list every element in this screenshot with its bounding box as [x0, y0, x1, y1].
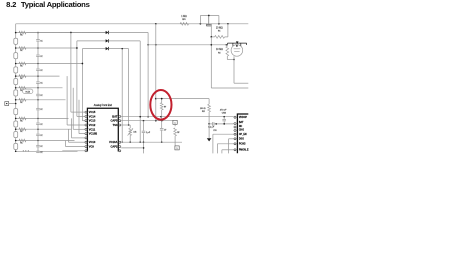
wire - VC13 sense vertical x82	[81, 49, 83, 121]
svg-text:VC11: VC11	[89, 127, 96, 131]
node - filter cap column junction row 6	[37, 99, 39, 101]
pin U2-4 stub	[234, 129, 237, 131]
wire - VC10A rail	[121, 141, 182, 143]
pin VC11 stub	[85, 128, 88, 130]
pin U2-3 stub	[234, 126, 237, 128]
node - REGOUT bottom junction	[122, 142, 123, 143]
capacitor CC7	[37, 118, 39, 122]
node - BAT rail junction x224	[223, 116, 225, 118]
svg-text:CF: CF	[164, 130, 166, 132]
svg-text:RC: RC	[20, 120, 22, 122]
svg-text:1: 1	[177, 148, 178, 150]
node - RX1 bottom junction	[210, 36, 212, 38]
pin U2-8 stub	[234, 149, 237, 151]
wire - cell tap row 9	[16, 140, 75, 142]
resistor RC6	[19, 98, 26, 101]
svg-text:CC: CC	[40, 95, 42, 97]
jumper marker oval	[23, 89, 33, 94]
node - stack junction row 2	[15, 47, 17, 49]
pin VC12 stub	[85, 124, 88, 126]
node - rail junction at x200	[200, 23, 202, 25]
svg-text:VC10: VC10	[89, 140, 96, 144]
node - row2 T junction	[76, 47, 78, 49]
node - x156 junction y99	[155, 98, 157, 100]
capacitor CC9	[37, 141, 39, 146]
resistor RF1 highlighted	[161, 99, 163, 103]
svg-text:NC: NC	[239, 126, 243, 128]
node - D2 vertical bottom junction	[139, 141, 141, 143]
svg-text:0.1 µF: 0.1 µF	[208, 127, 215, 129]
capacitor CSS 0.1uF series	[209, 123, 212, 125]
node - CF bottom junction	[161, 141, 163, 143]
capacitor CC5	[37, 88, 39, 94]
svg-text:VC15: VC15	[89, 110, 96, 114]
node - CAP5 junction x155	[155, 120, 157, 122]
resistor RC2	[19, 47, 26, 50]
svg-text:VC5X: VC5X	[25, 92, 30, 94]
wire - bundle route row8 to AFE pin	[68, 129, 70, 142]
svg-text:CAP2: CAP2	[110, 145, 117, 149]
wire - highlighted net horizontal	[156, 98, 209, 100]
op-amp U2 driver box edge	[237, 114, 248, 153]
resistor RC7	[19, 117, 26, 120]
node - stack junction row 6	[15, 99, 17, 101]
wire - diode D3 output	[109, 48, 129, 50]
svg-text:100 Ω: 100 Ω	[200, 108, 206, 110]
node - stack junction row 9	[15, 140, 17, 142]
wire - cell tap row 1	[16, 32, 106, 34]
svg-text:CP_EN: CP_EN	[239, 134, 247, 136]
node - stack junction row 1	[15, 32, 17, 34]
resistor RC1	[19, 31, 26, 34]
svg-text:CC: CC	[40, 109, 42, 111]
pin VC13 stub	[85, 120, 88, 122]
node - gate loop junction	[208, 15, 210, 17]
svg-text:Typical Applications: Typical Applications	[21, 0, 90, 9]
wire - CAP5 rail	[121, 120, 173, 122]
wire - bundle route row5 to AFE pin	[72, 88, 74, 130]
svg-text:RC: RC	[20, 131, 22, 133]
svg-text:RC: RC	[20, 90, 22, 92]
svg-text:VC10B: VC10B	[89, 132, 97, 136]
node - BAT rail junction x161	[160, 116, 162, 118]
capacitor CC8	[37, 129, 39, 134]
node - filter cap column junction row 4	[37, 75, 39, 77]
battery cell BT9	[14, 143, 18, 149]
node - row3 T junction	[82, 63, 84, 65]
svg-text:VC9: VC9	[89, 145, 95, 149]
transistor Q2 gate marks	[234, 48, 241, 50]
battery cell BT7	[14, 121, 18, 127]
transistor Q2 drain bar	[228, 42, 247, 44]
resistor RW 100 ohm	[208, 99, 210, 104]
wire - cell tap row 4	[16, 75, 60, 77]
wire - BAT rail	[121, 116, 233, 118]
wire - diode D2 output	[109, 40, 141, 42]
wire - CP_EN riser	[212, 134, 214, 153]
node - rail junction at x156	[155, 23, 157, 25]
svg-text:CC: CC	[40, 124, 42, 126]
svg-text:Analog Front End: Analog Front End	[94, 104, 113, 107]
svg-text:PCHG: PCHG	[239, 144, 246, 146]
wire - bundle route row9 to AFE pin	[65, 141, 67, 147]
node - filter cap column junction row 9	[37, 140, 39, 142]
transistor Q2 body circle	[231, 45, 243, 57]
pin VC15 stub	[85, 111, 88, 113]
node - stack junction row 5	[15, 87, 17, 89]
resistor RC3	[19, 62, 26, 65]
node - CVDD bottom junction	[223, 123, 225, 125]
wire - D1 output vertical x148	[147, 33, 149, 117]
svg-text:10 MΩ: 10 MΩ	[216, 49, 223, 51]
pin CAP2 right stub	[118, 146, 121, 148]
wire - D3 output vertical x129	[128, 49, 130, 125]
wire - DSG drive horizontal to edge	[234, 82, 248, 84]
resistor RPMON	[174, 124, 176, 126]
op-amp U1 Analog Front End box	[87, 108, 118, 151]
node - stack junction row 7	[15, 118, 17, 120]
svg-text:8.2: 8.2	[6, 0, 16, 9]
svg-text:1: 1	[175, 123, 176, 125]
battery cell BT1	[14, 38, 18, 44]
node - stack junction row 8	[15, 128, 17, 130]
node - stack junction row 10	[15, 151, 17, 153]
wire - cell tap row 7	[16, 117, 69, 119]
svg-text:CC: CC	[40, 70, 42, 72]
pin VC10B stub	[85, 133, 88, 135]
wire - PMON riser	[221, 150, 223, 154]
resistor RC5	[19, 86, 26, 89]
wire - RX2 bottom to Q2 source	[226, 56, 228, 59]
node - filter cap column junction row 8	[37, 128, 39, 130]
wire - top BAT+ rail	[16, 23, 249, 25]
wire - cell tap row 5	[16, 87, 63, 89]
node - Q2 source junction	[233, 59, 235, 61]
node - D1 vertical bottom junction	[147, 116, 149, 118]
ellipsis continuation dots	[23, 150, 24, 151]
capacitor CC10	[37, 150, 39, 152]
capacitor CTS 1uF	[143, 121, 145, 131]
svg-text:PMON_E: PMON_E	[239, 150, 249, 152]
svg-text:VC12: VC12	[89, 123, 96, 127]
node - PACK- stack junction	[15, 103, 17, 105]
resistor RPU 1 Mohm	[180, 22, 188, 25]
node - Q2 internal node	[236, 45, 238, 47]
svg-text:TS3: TS3	[113, 123, 118, 127]
svg-text:CSS: CSS	[213, 130, 216, 132]
capacitor CC4	[37, 76, 39, 82]
wire - RW ground vertical	[208, 124, 210, 138]
pin CAP5 right stub	[118, 120, 121, 122]
node - CAP5 junction x161	[161, 120, 163, 122]
resistor RC4	[19, 75, 26, 78]
capacitor CF	[161, 121, 163, 128]
wire - battery stack vertical rail	[15, 24, 17, 152]
svg-text:RC: RC	[20, 143, 22, 145]
wire - VC14 sense vertical x77	[76, 41, 78, 117]
capacitor CC3	[37, 64, 39, 69]
diode D1	[106, 31, 109, 34]
wire - diode D1 output	[109, 32, 149, 34]
svg-text:CC: CC	[40, 152, 42, 154]
pin U2-6 stub	[234, 138, 237, 140]
wire - diode row 1	[26, 32, 105, 34]
battery cell BT8	[14, 132, 18, 138]
node - REGOUT top junction	[121, 48, 123, 50]
svg-text:VDDCP: VDDCP	[239, 117, 248, 119]
wire - diode row 3 wire	[82, 48, 105, 50]
svg-text:RF: RF	[164, 106, 166, 108]
resistor RX1 10 Mohm loop	[210, 24, 212, 37]
wire - PCHG riser	[216, 144, 218, 154]
wire - TS3 net	[121, 124, 130, 126]
svg-text:RX: RX	[218, 52, 220, 54]
node - source rail x211 junction	[210, 44, 212, 46]
wire - VC15 sense vertical x71	[70, 33, 72, 113]
wire - REGOUT vertical x122	[121, 49, 123, 143]
svg-text:RF: RF	[177, 132, 179, 134]
resistor RC8	[19, 128, 26, 131]
transistor Q2 arrow	[236, 41, 239, 44]
resistor RX2 10 Mohm	[226, 46, 229, 56]
wire - bundle route row7 to AFE pin	[71, 118, 73, 137]
pin TS3 right stub	[118, 124, 121, 126]
svg-text:RC: RC	[20, 78, 22, 80]
wire - PACK- branch	[9, 103, 16, 105]
wire - cell tap row 8	[16, 128, 72, 130]
node - rail junction at x219	[218, 23, 220, 25]
pin VC10A right stub	[118, 141, 121, 143]
svg-text:RX: RX	[218, 31, 220, 33]
svg-text:CC: CC	[40, 135, 42, 137]
battery cell BT6	[14, 109, 18, 115]
battery cell BT5	[14, 90, 18, 96]
svg-text:BAT: BAT	[239, 121, 244, 124]
svg-text:10 MΩ: 10 MΩ	[216, 27, 223, 29]
wire - bundle route row6 to AFE pin	[78, 100, 80, 134]
svg-text:VC13: VC13	[89, 119, 96, 123]
node - source rail left junction	[155, 44, 157, 46]
node - stack junction row 3	[15, 63, 17, 65]
svg-text:RC: RC	[20, 50, 22, 52]
resistor RC9	[19, 139, 26, 142]
node - CTS bottom junction	[143, 141, 145, 143]
wire - bundle route row4 to AFE pin	[66, 76, 68, 125]
wire - CHG drive vertical	[210, 37, 212, 88]
wire - CAP2 rail	[121, 147, 143, 149]
svg-text:1 µF: 1 µF	[146, 132, 151, 134]
diode D2	[106, 39, 109, 42]
battery cell BT4	[14, 79, 18, 85]
svg-text:1 MΩ: 1 MΩ	[181, 16, 187, 18]
svg-text:470 nF: 470 nF	[220, 110, 227, 112]
pin unlabeled stub	[85, 150, 88, 152]
wire - Q2 source vertical	[233, 56, 235, 83]
svg-text:CVDD: CVDD	[222, 112, 226, 114]
battery cell BT3	[14, 67, 18, 73]
svg-text:RW: RW	[202, 111, 205, 113]
node - filter cap column junction row 5	[37, 87, 39, 89]
wire - gate loop of Q1	[199, 16, 201, 24]
svg-text:RC: RC	[20, 66, 22, 68]
node - RT1 bottom junction	[129, 141, 131, 143]
wire - x156 vertical from top rail	[155, 24, 157, 121]
node - RF1 top junction	[161, 98, 163, 100]
transistor Q1	[208, 16, 210, 24]
battery cell BT2	[14, 53, 18, 59]
pin U2-5 stub	[234, 133, 237, 135]
ground symbol	[207, 138, 212, 141]
node - source rail right junction	[226, 44, 228, 46]
pin unlabeled stub	[85, 137, 88, 139]
pin VC10 stub	[85, 141, 88, 143]
svg-text:RPU: RPU	[182, 19, 185, 21]
pin unlabeled right stub	[118, 150, 121, 152]
node - stack junction row 4	[15, 75, 17, 77]
wire - BAT pin wire of driver	[216, 123, 233, 125]
node - CAP5 junction x143	[143, 120, 145, 122]
wire - cell tap row 2	[16, 47, 77, 49]
node - rail junction at x228	[227, 23, 229, 25]
svg-text:CC: CC	[40, 146, 42, 148]
svg-text:RC: RC	[20, 102, 22, 104]
pin U2-2 stub	[234, 123, 237, 125]
pin U2-7 stub	[234, 143, 237, 145]
svg-text:VC14: VC14	[89, 114, 96, 118]
svg-text:BAT: BAT	[112, 114, 118, 118]
pin U2-1 stub	[234, 116, 237, 118]
svg-text:CC: CC	[40, 40, 42, 42]
connector box 2	[175, 146, 179, 150]
svg-text:CHG: CHG	[239, 129, 244, 131]
terminal PACK- box	[5, 102, 9, 106]
svg-text:VC10A: VC10A	[109, 140, 117, 144]
wire - source sense rail	[148, 44, 226, 46]
node - filter cap column junction row 7	[37, 118, 39, 120]
red highlight ellipse annotation	[150, 90, 171, 120]
wire - cell tap row 3	[16, 63, 83, 65]
capacitor CC2	[37, 48, 39, 55]
node - diode row1 tap junction	[70, 32, 72, 34]
wire - cell tap row 10	[16, 150, 78, 152]
node - filter cap column junction row 1	[37, 32, 39, 34]
svg-text:RC: RC	[20, 35, 22, 37]
node - RW bottom junction	[208, 123, 210, 125]
node - CAP2 T junction	[143, 147, 145, 149]
svg-text:CC: CC	[40, 83, 42, 85]
node - filter cap column junction row 2	[37, 47, 39, 49]
wire - bundle route row10 to AFE pin	[62, 150, 64, 153]
svg-text:DSG: DSG	[239, 138, 244, 140]
node - CSS right junction	[215, 123, 217, 125]
capacitor CVDD 470nF	[223, 117, 225, 119]
connector box 1	[173, 120, 177, 124]
pin BAT right stub	[118, 115, 121, 117]
wire - D2 output vertical x140	[139, 41, 141, 142]
pin VC9 stub	[85, 146, 88, 148]
wire - cell tap row 6	[16, 99, 66, 101]
capacitor CC6	[37, 100, 39, 108]
diode D3	[106, 47, 109, 50]
node - source rail x148 junction	[147, 44, 149, 46]
svg-text:CAP5: CAP5	[110, 119, 117, 123]
wire - diode row 2 wire	[77, 40, 106, 42]
thermistor RT1	[129, 125, 131, 128]
node - filter cap column junction row 3	[37, 63, 39, 65]
wire - RX2 top connection	[225, 44, 228, 46]
node - BAT rail junction x140	[139, 116, 141, 118]
wire - DSG riser	[228, 139, 230, 154]
svg-text:CC: CC	[40, 56, 42, 58]
svg-text:10k: 10k	[133, 132, 136, 134]
capacitor CC1	[37, 33, 39, 40]
pin VC14 stub	[85, 115, 88, 117]
node - D3 vertical bottom junction	[128, 124, 130, 126]
wire - CHG drive horizontal to edge	[211, 87, 248, 89]
